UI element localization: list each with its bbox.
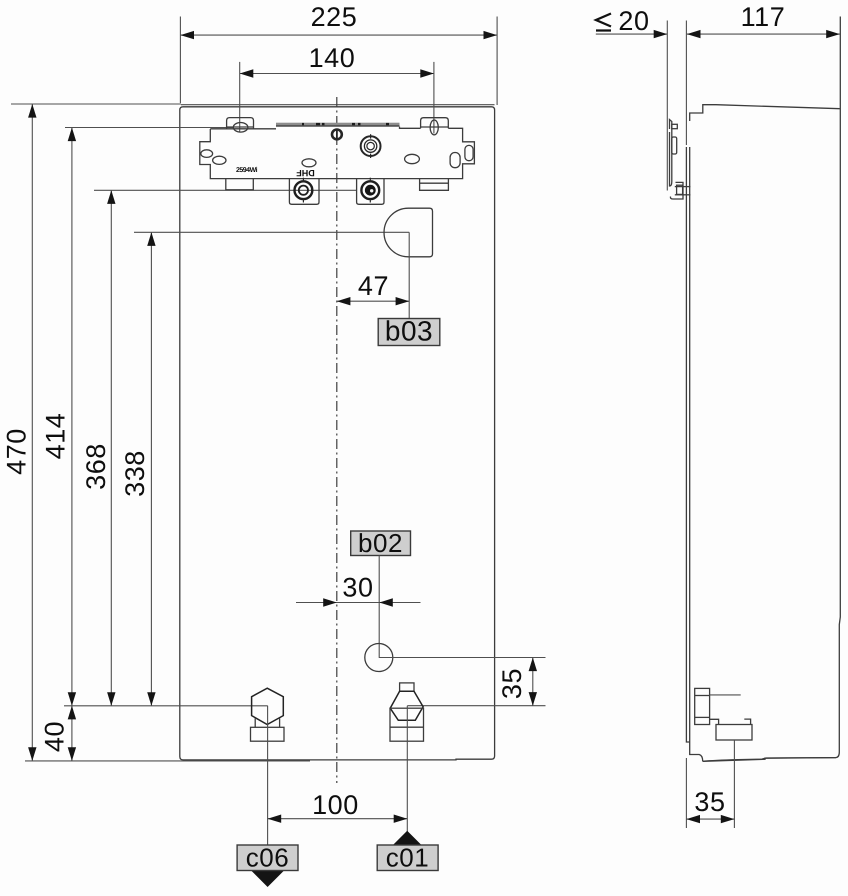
svg-text:225: 225 xyxy=(311,2,358,32)
dim 47 line xyxy=(337,300,409,302)
hanger bolt box xyxy=(677,185,683,194)
svg-text:47: 47 xyxy=(358,271,389,301)
dim 225 arrow right xyxy=(484,31,498,39)
b03 leader vertical xyxy=(408,232,410,318)
bracket boss left tick marks xyxy=(302,178,304,182)
bracket boss right tick marks xyxy=(369,178,371,182)
dim 140 line xyxy=(240,73,434,75)
bracket oval center xyxy=(302,159,316,167)
b03 connector D-boss xyxy=(384,208,432,257)
dim 35 arrow bottom xyxy=(529,692,537,706)
side pipe elbow hook xyxy=(744,719,750,724)
mounting bracket plate outline xyxy=(200,128,475,178)
bracket upper circle inner xyxy=(367,142,374,149)
dim 470 arrow bottom xyxy=(28,747,36,761)
bracket oval right xyxy=(405,154,420,163)
wall bracket clip xyxy=(672,137,677,154)
dim 368 line xyxy=(110,190,112,706)
hanger bolt line top xyxy=(675,186,691,188)
c01 leader vertical xyxy=(406,706,408,845)
dim 225 extension left xyxy=(179,17,181,104)
dim 47 arrow right xyxy=(396,297,410,305)
bracket boss tab right xyxy=(357,179,384,205)
c01 label box xyxy=(377,845,438,871)
dim 30 arrow left (outside, pointing right) xyxy=(323,598,337,606)
bracket bottom tab far right xyxy=(420,179,449,191)
dim 40 line xyxy=(71,706,73,761)
svg-text:338: 338 xyxy=(120,450,150,497)
dim 338 arrow top xyxy=(147,232,155,246)
svg-text:35: 35 xyxy=(497,668,527,699)
panel outline (front view body) xyxy=(180,107,495,760)
dim 140 extension left xyxy=(239,62,241,133)
b02 connector circle xyxy=(365,644,393,672)
dim 338 arrow bottom xyxy=(147,692,155,706)
c01 fitting hexagon xyxy=(390,691,423,720)
svg-text:35: 35 xyxy=(694,787,725,817)
bracket boss right highlight xyxy=(370,189,373,192)
side pipe elbow body xyxy=(716,725,752,741)
c06 fitting hexagon xyxy=(252,688,284,724)
svg-text:40: 40 xyxy=(40,721,70,752)
bracket right protrusion slot xyxy=(465,145,473,160)
bracket top edge left xyxy=(210,128,276,130)
bracket screw slot right (vertical oval) xyxy=(430,120,438,135)
bracket boss circle right outer xyxy=(361,181,379,199)
dim le20 line xyxy=(596,33,668,35)
svg-text:470: 470 xyxy=(2,428,32,475)
dim 117 arrow right xyxy=(826,30,840,38)
dim 470 arrow top xyxy=(28,104,36,118)
svg-text:c06: c06 xyxy=(246,843,289,873)
side pipe stub ring top xyxy=(695,695,710,697)
wall bracket top tab xyxy=(672,124,678,128)
side body back edge inner xyxy=(686,147,689,742)
wall bracket plate (side) xyxy=(670,120,672,187)
dim 35 arrow top xyxy=(529,658,537,672)
dim 414 line xyxy=(71,128,73,706)
side pipe center vertical xyxy=(733,740,735,828)
c06 leader vertical xyxy=(267,706,269,845)
b02 extension to 35 dim xyxy=(379,657,546,659)
svg-text:100: 100 xyxy=(312,790,359,820)
dim 368 extension top xyxy=(94,189,357,191)
dim le20 text xyxy=(596,14,611,31)
hanger bolt line bottom xyxy=(675,194,691,196)
bracket boss tab left xyxy=(289,179,319,205)
svg-text:b03: b03 xyxy=(385,316,433,347)
svg-text:20: 20 xyxy=(618,6,649,36)
dim 35 side arrow right xyxy=(721,815,735,823)
side pipe leader line xyxy=(710,694,741,696)
bracket center screw xyxy=(332,130,342,140)
dim 368 arrow bottom xyxy=(107,692,115,706)
bracket upper circle (gas fitting) outer xyxy=(361,136,381,156)
side pipe stub xyxy=(695,688,710,724)
side bottom edge xyxy=(703,758,836,762)
dim le20 arrow xyxy=(654,30,668,38)
c01 fitting top stub xyxy=(400,683,414,691)
dim 30 line xyxy=(296,602,421,604)
center line (dash-dot) xyxy=(336,97,338,783)
bracket top edge right of rail xyxy=(400,127,421,129)
dim 338 extension top xyxy=(134,231,409,233)
bracket screw tab right xyxy=(421,118,449,129)
bracket oval right2 (rounded rect) xyxy=(450,153,460,168)
svg-text:c01: c01 xyxy=(386,843,429,873)
c01 fitting sleeve xyxy=(390,708,424,741)
dim 338 line xyxy=(150,232,152,706)
c06 label box xyxy=(237,845,298,871)
bracket boss circle left outer xyxy=(295,181,313,199)
svg-text:30: 30 xyxy=(342,573,373,603)
c01 label diamond xyxy=(390,831,425,866)
shared lower reference line xyxy=(64,705,268,707)
svg-text:2594Wi: 2594Wi xyxy=(236,166,258,174)
dim 225 arrow left xyxy=(180,31,194,39)
appliance top cover edge line xyxy=(181,104,495,106)
dim 30 arrow right (outside, pointing left) xyxy=(379,598,393,606)
svg-text:414: 414 xyxy=(41,413,71,460)
svg-text:b02: b02 xyxy=(358,528,403,558)
side wall extension for 35 xyxy=(685,758,687,828)
svg-text:368: 368 xyxy=(81,443,111,490)
dim 100 arrow right xyxy=(394,815,408,823)
side pipe stub ring bottom xyxy=(695,716,710,718)
wall surface line xyxy=(666,21,668,191)
dim 414 arrow bottom xyxy=(68,692,76,706)
side pipe elbow connect xyxy=(710,719,719,724)
c06 fitting flange xyxy=(251,727,285,741)
bracket boss circle left inner xyxy=(299,186,308,195)
c06 fitting neck xyxy=(254,718,256,727)
dim 35 line (front view) xyxy=(532,658,534,706)
dim 35 side arrow left xyxy=(686,815,700,823)
side body top cover xyxy=(690,105,840,121)
dim 368 arrow top xyxy=(107,190,115,204)
bracket upper circle middle xyxy=(364,140,376,152)
bracket oval left inner xyxy=(213,156,226,164)
bracket bottom tab far left xyxy=(226,179,254,190)
c01 extension to 35 dim xyxy=(407,705,545,707)
dim 117 line xyxy=(687,33,840,35)
dim 140 arrow left xyxy=(240,69,254,77)
dim 140 arrow right xyxy=(420,69,434,77)
dim 40 arrow top xyxy=(68,706,76,720)
bracket oval left outer xyxy=(201,150,213,158)
svg-text:140: 140 xyxy=(309,43,356,73)
dim 40 arrow bottom xyxy=(68,747,76,761)
c01 fitting sleeve divider xyxy=(390,726,424,728)
bracket center screw slot xyxy=(336,129,338,141)
side body front face xyxy=(703,17,841,762)
b02 label box xyxy=(351,531,411,556)
dim 35 line (side view) xyxy=(686,818,734,820)
b02 leader vertical xyxy=(378,556,380,658)
bracket upper circle tick marks xyxy=(370,134,372,138)
dim 470 extension top xyxy=(11,103,181,105)
bracket screw slot left (oval) xyxy=(233,123,248,133)
dim 140 extension right xyxy=(433,62,435,134)
wall tile line xyxy=(685,21,687,146)
dim 100 line xyxy=(268,818,408,820)
bracket boss circle right inner (filled) xyxy=(365,185,376,196)
dim 117 arrow left xyxy=(687,30,701,38)
svg-text:DHF: DHF xyxy=(296,168,315,178)
dim 225 line xyxy=(180,34,497,36)
dim 414 extension top xyxy=(65,127,234,129)
bracket screw tab left xyxy=(227,118,254,129)
dim 225 extension right xyxy=(496,17,498,106)
b03 label box xyxy=(378,319,440,346)
side body back edge xyxy=(690,147,703,761)
dim 47 arrow left xyxy=(337,297,351,305)
dim 414 arrow top xyxy=(68,128,76,142)
bracket hanging rail (dark bar) xyxy=(276,123,400,127)
dim 470 line xyxy=(31,104,33,761)
dim 100 arrow left xyxy=(268,815,282,823)
wall bracket foot xyxy=(670,182,683,199)
dim 470/40 extension bottom xyxy=(25,760,310,762)
c06 label diamond xyxy=(250,852,285,887)
svg-text:117: 117 xyxy=(741,2,786,32)
